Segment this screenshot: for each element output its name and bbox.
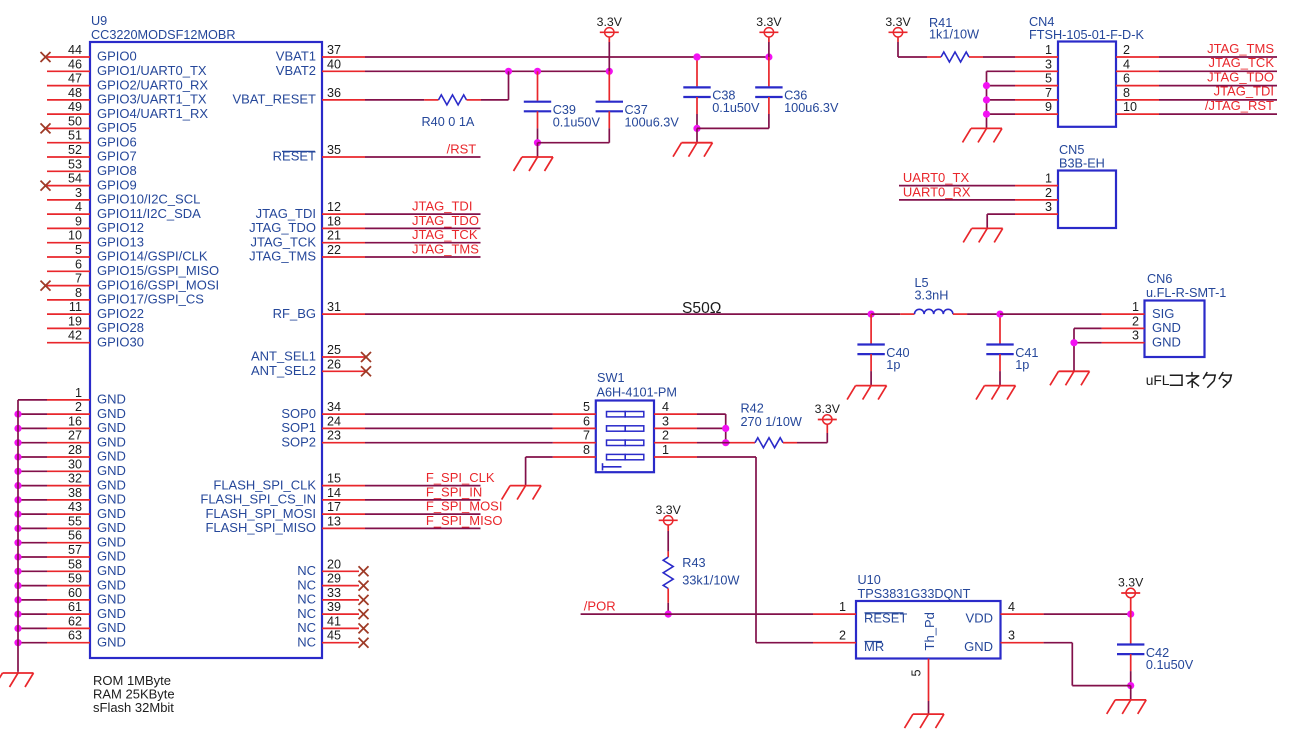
- wire SW1 pins 4,3 join to pin2 net: [697, 414, 729, 446]
- svg-text:U10: U10: [858, 573, 881, 587]
- U9 pin 21 (JTAG_TCK): [251, 229, 366, 250]
- U9 value label: [91, 28, 236, 42]
- svg-text:1: 1: [662, 443, 669, 457]
- svg-text:4: 4: [662, 400, 669, 414]
- U9 pin 63 (GND): [14, 629, 125, 650]
- svg-text:GPIO1/UART0_TX: GPIO1/UART0_TX: [97, 63, 207, 78]
- svg-text:A6H-4101-PM: A6H-4101-PM: [597, 386, 677, 400]
- svg-text:3: 3: [662, 414, 669, 428]
- svg-text:100u6.3V: 100u6.3V: [784, 101, 839, 115]
- SW1 pin 3: [654, 414, 697, 428]
- svg-text:GPIO16/GSPI_MOSI: GPIO16/GSPI_MOSI: [97, 277, 219, 292]
- switch SW1 body: [596, 401, 654, 473]
- capacitor C41 1p: [986, 311, 1038, 386]
- U9 pin 17 (FLASH_SPI_MOSI): [205, 500, 365, 521]
- svg-text:/POR: /POR: [584, 599, 616, 614]
- U9 pin 9 (GPIO12): [47, 214, 144, 235]
- U9 pin 60 (GND): [14, 586, 125, 607]
- wire UART0_TX net: [899, 185, 1015, 187]
- U10 reference label: [858, 573, 881, 587]
- U9 pin 6 (GPIO15/GSPI_MISO): [47, 257, 219, 278]
- svg-text:62: 62: [68, 614, 82, 628]
- svg-text:GPIO4/UART1_RX: GPIO4/UART1_RX: [97, 106, 208, 121]
- net label UART0_RX: [903, 184, 971, 199]
- svg-text:Th_Pd: Th_Pd: [922, 612, 937, 650]
- SW1 reference label: [597, 371, 625, 385]
- svg-text:GND: GND: [97, 620, 126, 635]
- CN4 pin 8 wire, net label JTAG_TDI: [1116, 84, 1277, 100]
- SW1 value label: [597, 386, 677, 400]
- CN6 pin 1 (SIG): [1102, 300, 1175, 321]
- svg-text:1: 1: [75, 386, 82, 400]
- svg-text:FTSH-105-01-F-D-K: FTSH-105-01-F-D-K: [1029, 28, 1144, 42]
- U9 pin 29 (NC) no-connect X: [297, 572, 368, 593]
- svg-text:UART0_TX: UART0_TX: [903, 170, 970, 185]
- wire UART0_RX net: [899, 199, 1015, 201]
- svg-text:7: 7: [75, 272, 82, 286]
- SW1 pin 7: [553, 429, 596, 443]
- wire JTAG_TDO net (U9 side): [365, 227, 481, 229]
- svg-text:/JTAG_RST: /JTAG_RST: [1205, 98, 1274, 113]
- svg-text:5: 5: [583, 400, 590, 414]
- wire VBAT2 net (pin40 to C37): [365, 68, 613, 75]
- svg-text:VBAT2: VBAT2: [276, 63, 316, 78]
- connector CN6 body: [1145, 301, 1205, 358]
- U9 pin 44 (GPIO0) no-connect X: [41, 43, 137, 64]
- svg-text:B3B-EH: B3B-EH: [1059, 157, 1105, 171]
- power symbol 3.3V (above C37): [597, 15, 623, 72]
- U9 pin 52 (GPIO7): [47, 143, 137, 164]
- U9 pin 40 (VBAT2): [276, 57, 365, 78]
- U9 pin 16 (GND): [14, 414, 125, 435]
- U9 pin 8 (GPIO17/GSPI_CS): [47, 286, 204, 307]
- svg-text:GPIO17/GSPI_CS: GPIO17/GSPI_CS: [97, 292, 204, 307]
- svg-text:7: 7: [1045, 86, 1052, 100]
- ground symbol (below C38): [673, 128, 713, 156]
- U9 pin 61 (GND): [14, 600, 125, 621]
- svg-text:GPIO6: GPIO6: [97, 134, 137, 149]
- svg-text:42: 42: [68, 329, 82, 343]
- svg-text:23: 23: [327, 429, 341, 443]
- svg-text:2: 2: [839, 629, 846, 643]
- svg-text:JTAG_TMS: JTAG_TMS: [412, 241, 479, 256]
- svg-text:19: 19: [68, 314, 82, 328]
- svg-text:22: 22: [327, 243, 341, 257]
- svg-text:GND: GND: [97, 606, 126, 621]
- wire SOP0 net: [365, 413, 553, 415]
- svg-text:1: 1: [1045, 43, 1052, 57]
- capacitor C37 100u6.3V: [596, 71, 680, 142]
- svg-text:GND: GND: [97, 406, 126, 421]
- svg-text:3.3V: 3.3V: [756, 15, 782, 29]
- net label JTAG_TMS (U9 side): [412, 241, 479, 256]
- U9 pin 37 (VBAT1): [276, 43, 365, 64]
- svg-text:JTAG_TCK: JTAG_TCK: [1209, 55, 1275, 70]
- net label F_SPI_IN: [426, 484, 482, 499]
- ground symbol (CN4): [963, 128, 1003, 142]
- svg-text:3.3V: 3.3V: [1118, 576, 1144, 590]
- U9 reference label: [91, 14, 107, 28]
- U9 pin 14 (FLASH_SPI_CS_IN): [200, 486, 365, 507]
- SW1 pin 8: [553, 443, 596, 457]
- U9 pin 7 (GPIO16/GSPI_MOSI) no-connect X: [41, 272, 220, 293]
- svg-text:SW1: SW1: [597, 371, 625, 385]
- capacitor C39 0.1u50V: [524, 71, 601, 146]
- svg-text:3: 3: [1008, 629, 1015, 643]
- svg-text:57: 57: [68, 543, 82, 557]
- svg-text:ANT_SEL1: ANT_SEL1: [251, 349, 316, 364]
- CN4 pin 6 wire, net label JTAG_TDO: [1116, 69, 1277, 85]
- U9 pin 1 (GND): [18, 386, 126, 407]
- wire F_SPI_CLK net: [365, 485, 481, 487]
- wire CN4 ground bus (pins 3,5,7,9): [983, 71, 1015, 128]
- svg-text:61: 61: [68, 600, 82, 614]
- svg-text:R40 0 1A: R40 0 1A: [422, 115, 475, 129]
- svg-text:20: 20: [327, 557, 341, 571]
- svg-text:3.3V: 3.3V: [597, 15, 623, 29]
- svg-text:GPIO9: GPIO9: [97, 177, 137, 192]
- resistor R41 1k 1/10W: [898, 16, 1015, 62]
- U9 pin 24 (SOP1): [281, 414, 365, 435]
- U9 pin 53 (GPIO8): [47, 157, 137, 178]
- svg-text:GND: GND: [97, 477, 126, 492]
- svg-text:17: 17: [327, 500, 341, 514]
- svg-text:2: 2: [1045, 186, 1052, 200]
- wire C41 to CN6 SIG: [1000, 313, 1102, 315]
- wire SW1 pin8 to ground: [526, 457, 553, 486]
- svg-text:8: 8: [1123, 86, 1130, 100]
- svg-text:8: 8: [75, 286, 82, 300]
- svg-text:15: 15: [327, 472, 341, 486]
- svg-text:CN4: CN4: [1029, 15, 1054, 29]
- wire RF_BG net (U9 pin31 to C40): [365, 311, 875, 318]
- U9 pin 50 (GPIO5) no-connect X: [41, 114, 137, 135]
- svg-text:GND: GND: [97, 577, 126, 592]
- svg-text:JTAG_TDI: JTAG_TDI: [256, 206, 316, 221]
- U9 pin 19 (GPIO28): [47, 314, 144, 335]
- svg-text:100u6.3V: 100u6.3V: [625, 115, 680, 129]
- U9 pin 57 (GND): [14, 543, 125, 564]
- capacitor C40 1p: [857, 314, 909, 386]
- svg-text:NC: NC: [297, 634, 316, 649]
- U9 pin 15 (FLASH_SPI_CLK): [213, 472, 365, 493]
- capacitor C38 0.1u50V: [683, 53, 760, 132]
- capacitor C42 0.1u50V: [1117, 614, 1194, 689]
- svg-text:JTAG_TDO: JTAG_TDO: [412, 213, 479, 228]
- svg-text:60: 60: [68, 586, 82, 600]
- svg-text:VDD: VDD: [966, 611, 993, 626]
- svg-text:3: 3: [75, 186, 82, 200]
- svg-text:32: 32: [68, 472, 82, 486]
- svg-text:GND: GND: [97, 634, 126, 649]
- svg-text:9: 9: [1045, 100, 1052, 114]
- GND bus wire (left): [17, 400, 19, 671]
- ground symbol (CN5): [963, 228, 1003, 242]
- svg-text:21: 21: [327, 229, 341, 243]
- U9 pin 26 (ANT_SEL2) no-connect X: [251, 357, 371, 378]
- CN4 pin 2 wire, net label JTAG_TMS: [1116, 41, 1277, 57]
- net label UART0_TX: [903, 170, 970, 185]
- wire SW1 pin1 to U10 MR: [697, 457, 813, 643]
- U9 pin 41 (NC) no-connect X: [297, 614, 368, 635]
- CN6 pin 2 (GND): [1102, 314, 1181, 335]
- svg-text:GND: GND: [1152, 320, 1181, 335]
- power symbol 3.3V (at R41): [885, 15, 911, 57]
- svg-text:S50Ω: S50Ω: [682, 300, 721, 317]
- svg-text:JTAG_TCK: JTAG_TCK: [251, 234, 317, 249]
- svg-text:25: 25: [327, 343, 341, 357]
- ground symbol (SW1 pin8): [502, 486, 541, 500]
- svg-text:GPIO2/UART0_RX: GPIO2/UART0_RX: [97, 77, 208, 92]
- svg-text:F_SPI_CLK: F_SPI_CLK: [426, 470, 495, 485]
- power symbol 3.3V (above C36): [756, 15, 782, 57]
- svg-text:VBAT1: VBAT1: [276, 49, 316, 64]
- U9 pin 11 (GPIO22): [47, 300, 144, 321]
- svg-text:43: 43: [68, 500, 82, 514]
- svg-text:41: 41: [327, 614, 341, 628]
- wire /RST net (pin35): [365, 156, 481, 158]
- svg-text:48: 48: [68, 86, 82, 100]
- wire SOP1 net: [365, 427, 553, 429]
- svg-text:GPIO10/I2C_SCL: GPIO10/I2C_SCL: [97, 192, 200, 207]
- CN5 pin 2: [1015, 186, 1058, 200]
- U9 pin 34 (SOP0): [281, 400, 365, 421]
- svg-text:SOP0: SOP0: [281, 406, 316, 421]
- U9 pin 20 (NC) no-connect X: [297, 557, 368, 578]
- svg-text:40: 40: [327, 57, 341, 71]
- svg-text:u.FL-R-SMT-1: u.FL-R-SMT-1: [1146, 286, 1226, 300]
- svg-text:36: 36: [327, 86, 341, 100]
- U9 pin 62 (GND): [14, 614, 125, 635]
- wire F_SPI_IN net: [365, 499, 481, 501]
- U9 pin 54 (GPIO9) no-connect X: [41, 172, 137, 193]
- svg-text:GPIO22: GPIO22: [97, 306, 144, 321]
- resistor R43 33k 1/10W: [663, 556, 739, 618]
- svg-text:6: 6: [1123, 72, 1130, 86]
- svg-text:sFlash 32Mbit: sFlash 32Mbit: [93, 700, 174, 715]
- svg-text:51: 51: [68, 129, 82, 143]
- connector CN5 body: [1058, 171, 1116, 229]
- svg-text:50: 50: [68, 114, 82, 128]
- svg-text:1: 1: [1045, 172, 1052, 186]
- wire F_SPI_MISO net: [365, 527, 481, 529]
- svg-text:31: 31: [327, 300, 341, 314]
- svg-text:JTAG_TDO: JTAG_TDO: [249, 220, 316, 235]
- svg-text:34: 34: [327, 400, 341, 414]
- SW1 pin 4: [654, 400, 697, 414]
- U10 pin 2 (MR): [813, 629, 884, 654]
- svg-text:GPIO15/GSPI_MISO: GPIO15/GSPI_MISO: [97, 263, 219, 278]
- SW1 pin 1: [654, 443, 697, 457]
- svg-text:JTAG_TMS: JTAG_TMS: [249, 249, 316, 264]
- svg-text:6: 6: [75, 257, 82, 271]
- U9 pin 43 (GND): [14, 500, 125, 521]
- CN4 reference label: [1029, 15, 1054, 29]
- power symbol 3.3V (above R43): [656, 503, 682, 557]
- svg-text:SOP1: SOP1: [281, 420, 316, 435]
- U9 pin 39 (NC) no-connect X: [297, 600, 368, 621]
- svg-text:FLASH_SPI_CS_IN: FLASH_SPI_CS_IN: [200, 492, 316, 507]
- wire SOP2 net: [365, 442, 553, 444]
- svg-text:GPIO11/I2C_SDA: GPIO11/I2C_SDA: [97, 206, 201, 221]
- svg-text:53: 53: [68, 157, 82, 171]
- svg-text:28: 28: [68, 443, 82, 457]
- svg-text:JTAG_TMS: JTAG_TMS: [1207, 41, 1274, 56]
- U9 pin 4 (GPIO11/I2C_SDA): [47, 200, 201, 221]
- svg-text:9: 9: [75, 214, 82, 228]
- U9 note ROM/RAM/sFlash: [93, 673, 175, 715]
- svg-text:U9: U9: [91, 14, 107, 28]
- wire JTAG_TMS net (U9 side): [365, 256, 481, 258]
- svg-text:CN5: CN5: [1059, 143, 1084, 157]
- U9 pin 38 (GND): [14, 486, 125, 507]
- U9 pin 32 (GND): [14, 472, 125, 493]
- svg-text:1p: 1p: [1015, 358, 1029, 372]
- svg-text:5: 5: [75, 243, 82, 257]
- svg-text:GPIO12: GPIO12: [97, 220, 144, 235]
- svg-text:GPIO5: GPIO5: [97, 120, 137, 135]
- U10 value label: [858, 587, 971, 601]
- svg-text:R42: R42: [741, 401, 764, 415]
- svg-text:F_SPI_MOSI: F_SPI_MOSI: [426, 499, 503, 514]
- ground symbol (below C41): [976, 386, 1016, 400]
- U9 pin 42 (GPIO30): [47, 329, 144, 350]
- CN4 pin 5: [1015, 72, 1058, 86]
- svg-text:55: 55: [68, 514, 82, 528]
- svg-text:270 1/10W: 270 1/10W: [741, 415, 802, 429]
- wire F_SPI_MOSI net: [365, 513, 481, 515]
- svg-text:18: 18: [327, 214, 341, 228]
- wire JTAG_TCK net (U9 side): [365, 242, 481, 244]
- svg-text:GND: GND: [97, 449, 126, 464]
- svg-text:GND: GND: [964, 639, 993, 654]
- IC U9 body (CC3220MODSF12MOBR): [90, 42, 322, 658]
- CN6 reference label: [1147, 272, 1172, 286]
- svg-text:3: 3: [1132, 329, 1139, 343]
- capacitor C36 100u6.3V: [755, 57, 839, 128]
- CN5 pin 3: [1015, 200, 1058, 214]
- svg-text:GND: GND: [97, 434, 126, 449]
- svg-text:6: 6: [583, 414, 590, 428]
- svg-text:GND: GND: [97, 420, 126, 435]
- svg-text:13: 13: [327, 514, 341, 528]
- svg-text:GPIO28: GPIO28: [97, 320, 144, 335]
- svg-text:NC: NC: [297, 620, 316, 635]
- connector CN4 body: [1058, 42, 1116, 127]
- U9 pin 28 (GND): [14, 443, 125, 464]
- CN4 pin 1: [1015, 43, 1058, 57]
- svg-text:GND: GND: [97, 534, 126, 549]
- svg-text:10: 10: [1123, 100, 1137, 114]
- svg-text:GPIO13: GPIO13: [97, 234, 144, 249]
- CN6 pin 3 (GND): [1102, 329, 1181, 350]
- wire /POR net: [581, 613, 813, 615]
- net label JTAG_TCK (U9 side): [412, 227, 478, 242]
- svg-text:GPIO8: GPIO8: [97, 163, 137, 178]
- svg-text:GND: GND: [97, 592, 126, 607]
- net label /POR: [584, 599, 616, 614]
- svg-text:16: 16: [68, 414, 82, 428]
- U9 pin 49 (GPIO4/UART1_RX): [47, 100, 208, 121]
- svg-text:52: 52: [68, 143, 82, 157]
- svg-text:F_SPI_IN: F_SPI_IN: [426, 484, 482, 499]
- U9 pin 33 (NC) no-connect X: [297, 586, 368, 607]
- svg-text:3: 3: [1045, 200, 1052, 214]
- ground symbol (U10 pin5): [905, 714, 945, 728]
- svg-text:1: 1: [839, 600, 846, 614]
- U9 pin 51 (GPIO6): [47, 129, 137, 150]
- note uFL connector (Japanese): [1146, 373, 1232, 388]
- svg-text:26: 26: [327, 357, 341, 371]
- CN4 pin 9: [1015, 100, 1058, 114]
- svg-text:10: 10: [68, 229, 82, 243]
- svg-text:56: 56: [68, 529, 82, 543]
- svg-text:14: 14: [327, 486, 341, 500]
- svg-text:JTAG_TCK: JTAG_TCK: [412, 227, 478, 242]
- U9 pin 30 (GND): [14, 457, 125, 478]
- svg-text:39: 39: [327, 600, 341, 614]
- U9 pin 13 (FLASH_SPI_MISO): [205, 514, 365, 535]
- CN4 pin 10 wire, net label /JTAG_RST: [1116, 98, 1277, 114]
- U9 pin 5 (GPIO14/GSPI/CLK): [47, 243, 208, 264]
- svg-text:F_SPI_MISO: F_SPI_MISO: [426, 513, 503, 528]
- svg-text:2: 2: [662, 429, 669, 443]
- svg-text:8: 8: [583, 443, 590, 457]
- inductor L5 3.3nH: [871, 276, 1000, 314]
- ground symbol (CN6): [1050, 371, 1090, 385]
- U9 pin 25 (ANT_SEL1) no-connect X: [251, 343, 371, 364]
- SW1 pin 2: [654, 429, 697, 443]
- svg-text:37: 37: [327, 43, 341, 57]
- CN4 value label: [1029, 28, 1144, 42]
- U9 pin 45 (NC) no-connect X: [297, 629, 368, 650]
- svg-text:UART0_RX: UART0_RX: [903, 184, 971, 199]
- svg-text:2: 2: [1132, 314, 1139, 328]
- U9 pin 27 (GND): [14, 429, 125, 450]
- power symbol 3.3V (above C42): [1118, 576, 1144, 615]
- svg-text:JTAG_TDI: JTAG_TDI: [1214, 84, 1274, 99]
- svg-text:GND: GND: [97, 549, 126, 564]
- CN4 pin 3: [1015, 57, 1058, 71]
- svg-text:/RST: /RST: [447, 141, 477, 156]
- svg-text:4: 4: [75, 200, 82, 214]
- U9 pin 47 (GPIO2/UART0_RX): [47, 72, 208, 93]
- svg-text:SIG: SIG: [1152, 306, 1174, 321]
- svg-text:TPS3831G33DQNT: TPS3831G33DQNT: [858, 587, 971, 601]
- svg-text:1: 1: [1132, 300, 1139, 314]
- svg-text:0.1u50V: 0.1u50V: [712, 101, 760, 115]
- U10 internal label Th_Pd: [922, 612, 937, 650]
- svg-text:4: 4: [1123, 57, 1130, 71]
- svg-text:SOP2: SOP2: [281, 434, 316, 449]
- U9 pin 12 (JTAG_TDI): [256, 200, 365, 221]
- U9 pin 2 (GND): [14, 400, 125, 421]
- svg-text:GND: GND: [97, 506, 126, 521]
- svg-text:3.3V: 3.3V: [885, 15, 911, 29]
- IC U10 body (TPS3831G33DQNT): [856, 601, 1001, 659]
- ground symbol (left GND bus): [0, 671, 34, 687]
- svg-text:uFL: uFL: [1146, 373, 1170, 388]
- U9 pin 58 (GND): [14, 557, 125, 578]
- U10 pin 3 (GND): [964, 629, 1043, 654]
- svg-text:46: 46: [68, 57, 82, 71]
- svg-text:GND: GND: [97, 463, 126, 478]
- net label F_SPI_MOSI: [426, 499, 503, 514]
- U9 pin 22 (JTAG_TMS): [249, 243, 365, 264]
- svg-text:GPIO7: GPIO7: [97, 149, 137, 164]
- resistor R42 270 1/10W: [697, 401, 827, 447]
- svg-text:59: 59: [68, 572, 82, 586]
